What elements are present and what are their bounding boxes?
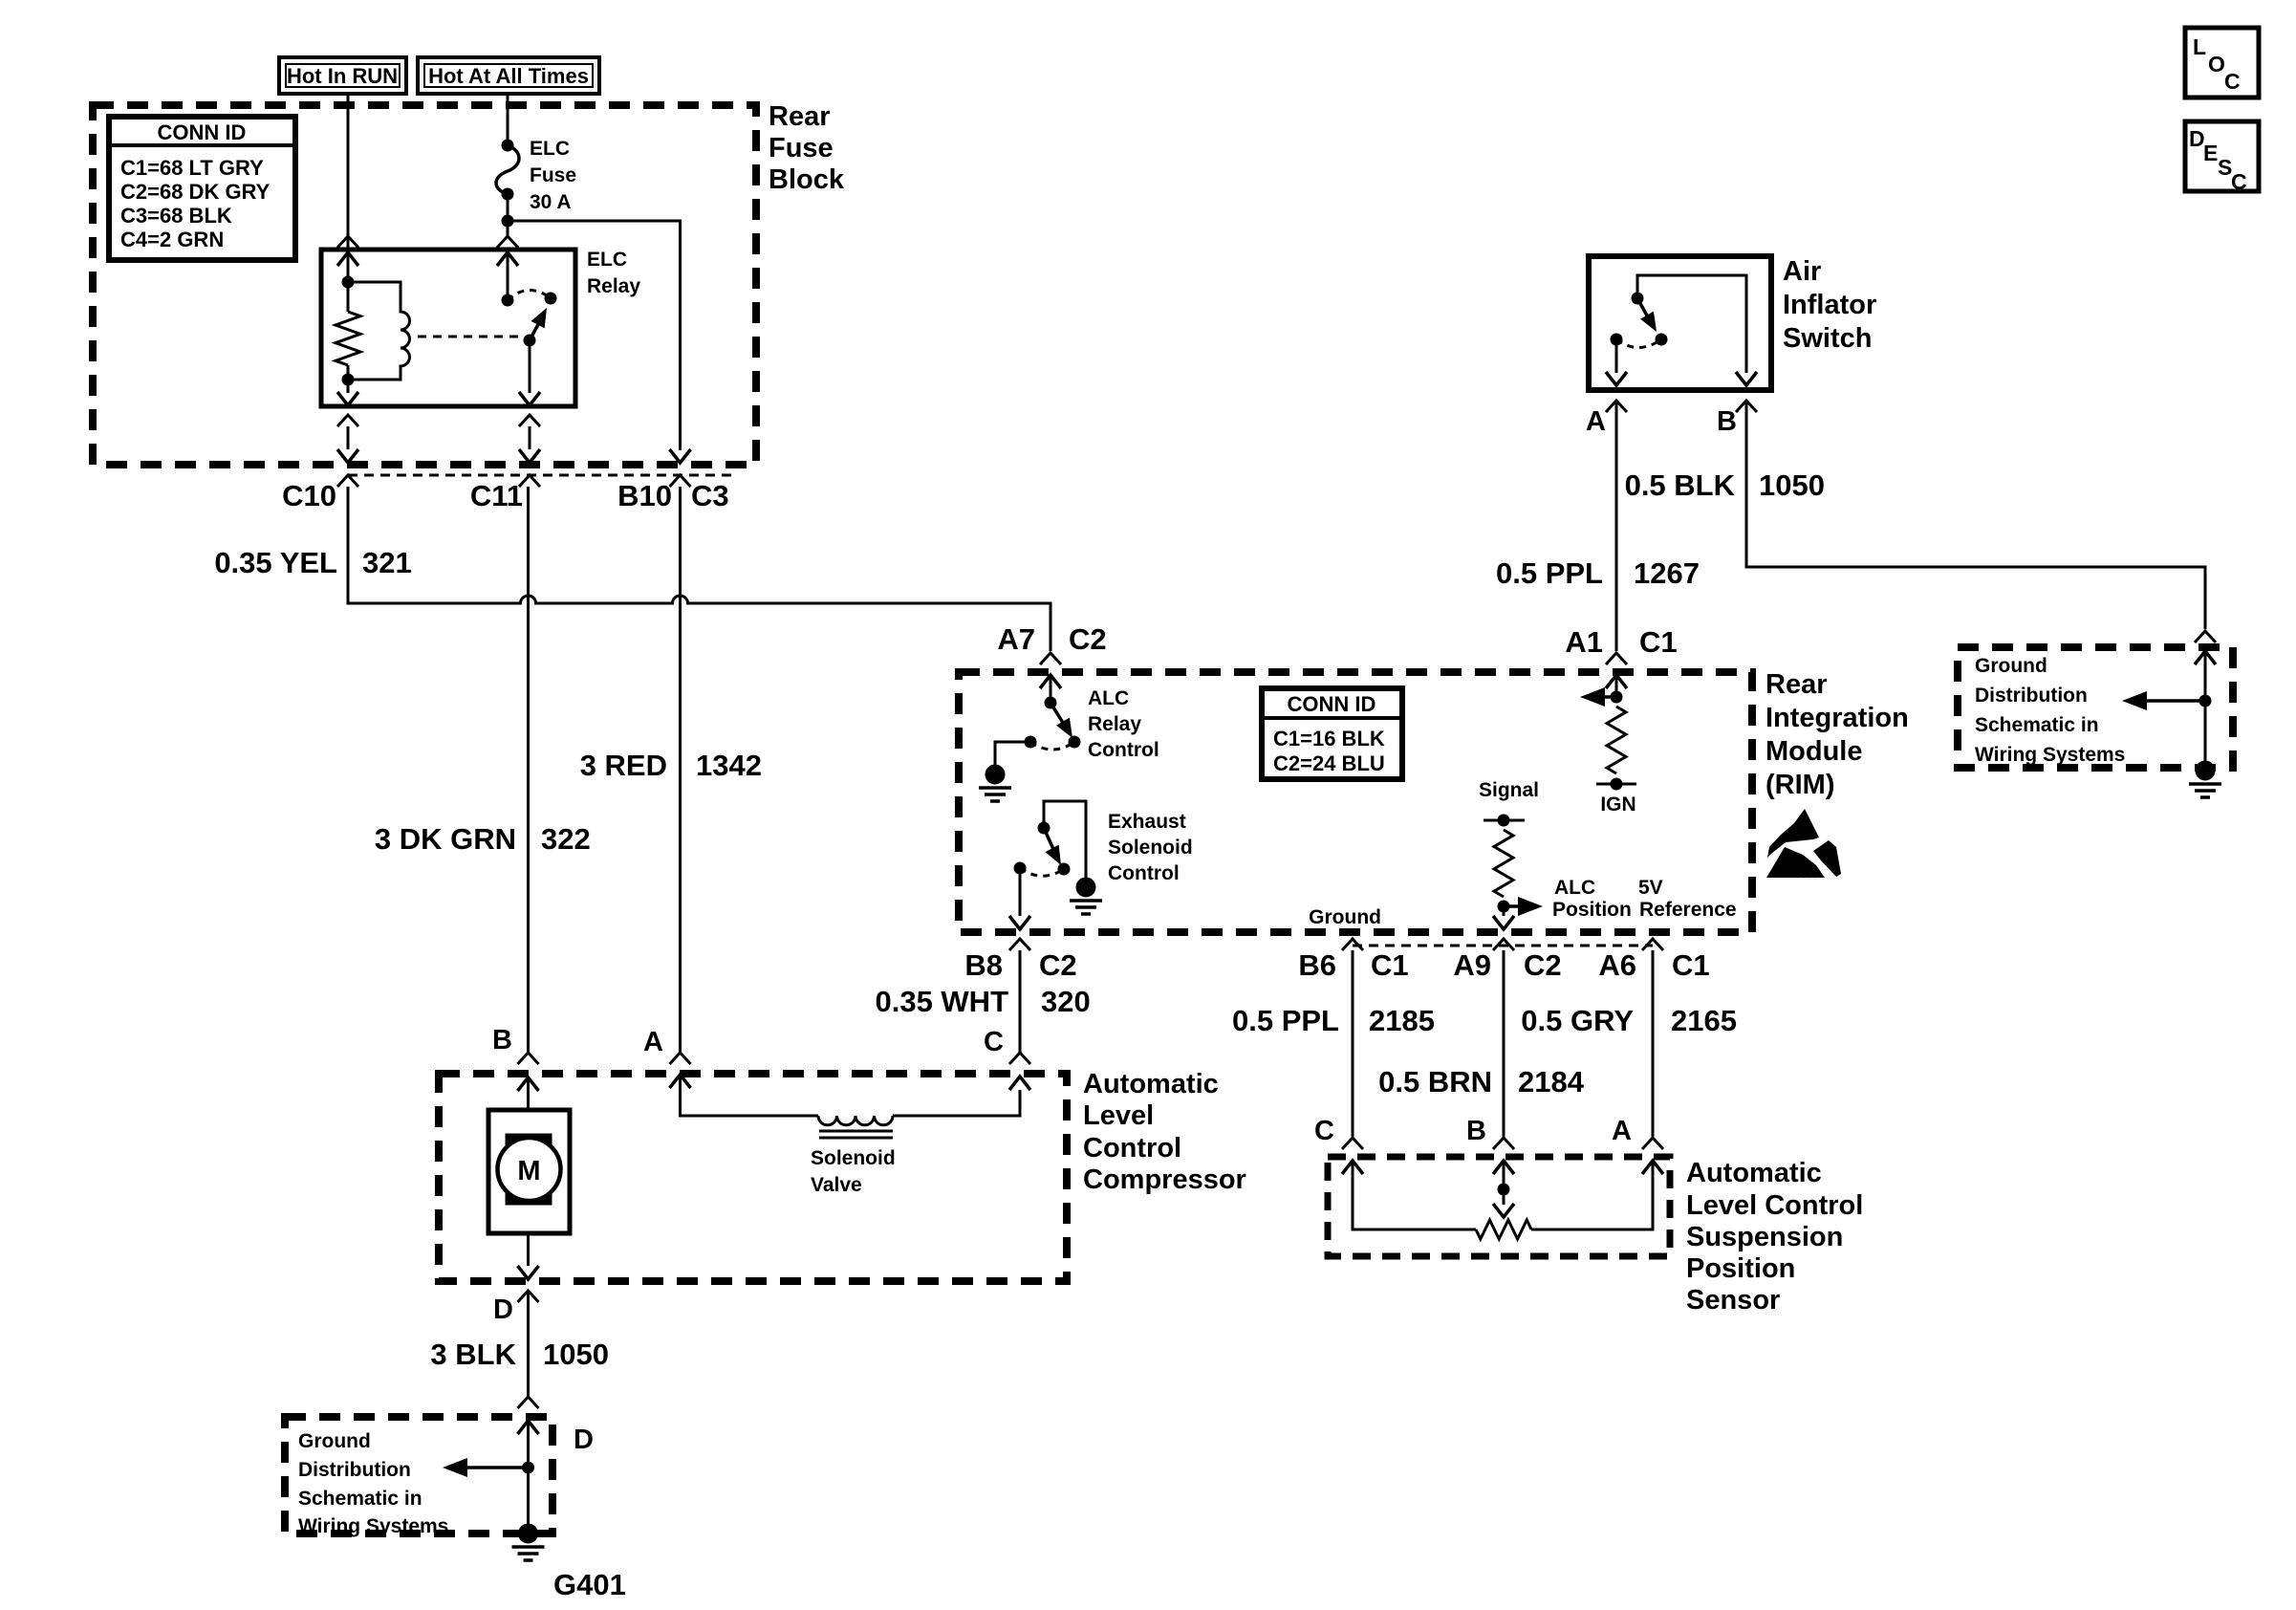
resistor ALC position signal <box>1484 815 1543 916</box>
svg-text:B: B <box>492 1025 512 1055</box>
ground (exhaust solenoid control) <box>1070 878 1102 914</box>
ground (ALC relay control) <box>979 765 1011 801</box>
label Ground Distribution Schematic in Wiring Systems (right) <box>1975 655 2125 766</box>
label Rear Fuse Block <box>769 101 845 195</box>
svg-text:C2=24 BLU: C2=24 BLU <box>1273 751 1385 775</box>
svg-text:C2: C2 <box>1069 622 1107 656</box>
svg-text:Inflator: Inflator <box>1783 290 1876 320</box>
relay coil-side entry arrow <box>337 252 358 266</box>
connector below relay left <box>337 415 358 426</box>
resistor IGN pull-up <box>1580 675 1636 790</box>
inductor Solenoid Valve coil <box>818 1116 893 1125</box>
svg-text:C3=68 BLK: C3=68 BLK <box>120 204 232 228</box>
label Ground Distribution Schematic in Wiring Systems (left) <box>298 1430 448 1537</box>
svg-text:0.5 BRN: 0.5 BRN <box>1378 1065 1492 1099</box>
connector compressor C <box>1009 1053 1030 1064</box>
label Air Inflator Switch <box>1783 256 1876 354</box>
connector B8/C2 <box>1009 939 1030 950</box>
svg-text:Position: Position <box>1552 899 1632 921</box>
svg-text:Ground: Ground <box>1975 655 2047 677</box>
svg-text:Valve: Valve <box>811 1174 862 1196</box>
switch ALC Relay Control <box>995 675 1080 765</box>
wire Hot At All Times down to fuse <box>507 94 509 145</box>
svg-text:0.5 PPL: 0.5 PPL <box>1232 1004 1339 1037</box>
svg-text:Reference: Reference <box>1639 899 1737 921</box>
svg-text:Rear: Rear <box>1765 669 1828 700</box>
svg-text:C11: C11 <box>470 479 523 512</box>
svg-text:C: C <box>2231 169 2247 194</box>
connector A1/C1 <box>1606 653 1627 664</box>
svg-text:320: 320 <box>1041 985 1091 1018</box>
wire to relay bottom (left) <box>347 380 350 393</box>
svg-text:1050: 1050 <box>1759 468 1825 502</box>
CONN ID table (RIM) <box>1262 688 1402 779</box>
svg-text:B: B <box>1717 406 1737 437</box>
connector to ground distribution <box>2195 631 2216 642</box>
svg-text:Schematic in: Schematic in <box>1975 714 2099 736</box>
svg-text:Relay: Relay <box>587 275 640 297</box>
node Hot At All Times feed box <box>418 57 599 94</box>
wire into right ground <box>2122 651 2216 765</box>
svg-text:Switch: Switch <box>1783 323 1872 354</box>
svg-text:G401: G401 <box>553 1568 626 1601</box>
arrow B8 out of RIM <box>1009 916 1030 929</box>
Ground Distribution box (left) <box>285 1417 552 1534</box>
svg-text:0.5 GRY: 0.5 GRY <box>1521 1004 1634 1037</box>
wire motor to D <box>527 1233 530 1266</box>
svg-text:B: B <box>1466 1116 1486 1146</box>
connector A9/C2 <box>1493 939 1514 950</box>
svg-text:Fuse: Fuse <box>530 164 576 186</box>
solenoid valve core bars <box>819 1131 893 1138</box>
svg-text:Automatic: Automatic <box>1686 1158 1822 1188</box>
svg-text:Exhaust: Exhaust <box>1108 811 1186 833</box>
switch Exhaust Solenoid Control <box>1014 801 1086 916</box>
wire Hot In RUN down to ELC relay <box>347 94 350 250</box>
svg-text:C10: C10 <box>282 479 336 512</box>
svg-text:Compressor: Compressor <box>1083 1164 1246 1195</box>
label ALC Relay Control <box>1088 687 1159 761</box>
svg-text:Relay: Relay <box>1088 713 1141 735</box>
svg-text:1342: 1342 <box>696 749 762 782</box>
motor M compressor motor <box>488 1110 570 1233</box>
svg-text:Ground: Ground <box>298 1430 371 1452</box>
svg-text:Ground: Ground <box>1309 906 1381 928</box>
svg-text:B10: B10 <box>617 479 672 512</box>
connector air inflator A <box>1606 401 1627 412</box>
svg-text:O: O <box>2208 52 2225 76</box>
svg-text:Distribution: Distribution <box>1975 685 2088 707</box>
svg-text:C1: C1 <box>1371 948 1409 982</box>
svg-text:0.35 WHT: 0.35 WHT <box>875 985 1008 1018</box>
relay actuation dashed link <box>418 336 523 338</box>
svg-text:D: D <box>493 1295 513 1325</box>
svg-text:Suspension: Suspension <box>1686 1222 1843 1252</box>
svg-text:C1: C1 <box>1672 948 1710 982</box>
wire relay C11 out <box>529 426 531 449</box>
svg-text:Hot At All Times: Hot At All Times <box>428 64 589 88</box>
connector compressor A <box>670 1053 691 1064</box>
junction fuse output <box>502 215 513 227</box>
wire 0.5 PPL 2185 : B6 to sensor C <box>1352 950 1354 1137</box>
wire 0.35 YEL 321 : C10 to RIM A7 <box>348 487 1051 651</box>
svg-text:C: C <box>984 1027 1004 1057</box>
svg-text:C2: C2 <box>1524 948 1562 982</box>
ALC Suspension Position Sensor box <box>1328 1157 1670 1256</box>
svg-text:ALC: ALC <box>1088 687 1129 709</box>
wire 0.5 GRY 2165 : A6 to sensor A <box>1652 950 1655 1137</box>
svg-text:30 A: 30 A <box>530 191 572 213</box>
svg-text:Air: Air <box>1783 256 1821 287</box>
svg-text:Control: Control <box>1088 739 1159 761</box>
svg-text:Wiring Systems: Wiring Systems <box>1975 744 2125 766</box>
wire relay left top <box>347 252 350 282</box>
Automatic Level Control Compressor box <box>439 1074 1067 1281</box>
svg-text:C2=68 DK GRY: C2=68 DK GRY <box>120 180 271 204</box>
svg-text:C1=16 BLK: C1=16 BLK <box>1273 727 1385 751</box>
svg-text:Schematic in: Schematic in <box>298 1488 422 1510</box>
svg-text:C4=2 GRN: C4=2 GRN <box>120 228 224 251</box>
arrow relay switch output <box>519 392 540 405</box>
connector A6/C1 <box>1642 939 1663 950</box>
svg-text:3 RED: 3 RED <box>580 749 667 782</box>
svg-text:C2: C2 <box>1039 948 1077 982</box>
svg-text:A: A <box>1586 406 1606 437</box>
Ground Distribution box (right) <box>1958 647 2233 768</box>
connector face line under RIM <box>1353 945 1653 947</box>
Rear Integration Module box <box>959 672 1752 932</box>
connector below relay right <box>519 415 540 426</box>
labels RIM bottom pins <box>1298 948 1709 982</box>
label Rear Integration Module (RIM) <box>1765 669 1909 800</box>
svg-text:Hot In RUN: Hot In RUN <box>287 64 398 88</box>
label ELC Relay <box>587 249 640 297</box>
wire relay C10 out <box>347 426 350 449</box>
svg-text:Position: Position <box>1686 1253 1795 1284</box>
inductor relay coil (right branch) <box>348 282 410 380</box>
wire 0.5 BLK 1050 : inflator B to ground <box>1746 401 2205 629</box>
connector compressor D <box>518 1291 539 1302</box>
labels sensor harness wires <box>1232 1004 1737 1099</box>
svg-text:C1=68 LT GRY: C1=68 LT GRY <box>120 156 264 180</box>
svg-text:Level Control: Level Control <box>1686 1190 1863 1221</box>
fuse ELC Fuse 30 A <box>496 138 576 213</box>
ground G401 <box>512 1524 545 1560</box>
svg-text:Control: Control <box>1108 862 1180 884</box>
wire junction to B10/C3 feed <box>508 221 681 450</box>
svg-text:L: L <box>2193 34 2206 59</box>
svg-text:Distribution: Distribution <box>298 1459 411 1481</box>
connector sensor A <box>1642 1138 1663 1149</box>
svg-text:B6: B6 <box>1298 948 1336 982</box>
CONN ID table (fuse block) <box>109 117 295 260</box>
connector into ELC relay (right) <box>497 236 518 248</box>
connector air inflator B <box>1736 401 1757 412</box>
svg-text:Fuse: Fuse <box>769 133 834 163</box>
connector sensor C <box>1342 1138 1363 1149</box>
svg-text:C1: C1 <box>1639 625 1678 659</box>
arrow into compressor B <box>518 1077 539 1091</box>
svg-text:Wiring Systems: Wiring Systems <box>298 1515 448 1537</box>
svg-text:321: 321 <box>362 546 412 579</box>
connector compressor B <box>518 1053 539 1064</box>
svg-text:D: D <box>574 1425 594 1455</box>
arrow A9 out of RIM <box>1493 916 1514 929</box>
svg-text:ALC: ALC <box>1554 877 1595 899</box>
wire fuse to junction <box>507 194 509 236</box>
potentiometer position sensor element <box>1342 1161 1663 1239</box>
svg-text:Module: Module <box>1765 736 1863 767</box>
resistor relay internal (left branch) <box>347 282 350 312</box>
svg-text:Block: Block <box>769 164 845 195</box>
svg-text:1050: 1050 <box>543 1338 609 1371</box>
svg-text:A7: A7 <box>997 622 1035 656</box>
arrow at fuse block edge (C11) <box>519 449 540 463</box>
svg-text:A: A <box>1612 1116 1632 1146</box>
svg-text:Signal: Signal <box>1479 779 1539 801</box>
Air Inflator Switch box <box>1589 256 1771 390</box>
svg-text:Solenoid: Solenoid <box>1108 837 1193 859</box>
wire 0.35 WHT 320 : B8 to compressor C <box>1019 950 1022 1053</box>
svg-text:ELC: ELC <box>530 138 570 160</box>
svg-text:2185: 2185 <box>1369 1004 1435 1037</box>
svg-text:0.35 YEL: 0.35 YEL <box>214 546 337 579</box>
svg-text:A6: A6 <box>1598 948 1636 982</box>
Rear Fuse Block (dashed outline) <box>93 105 756 465</box>
svg-text:(RIM): (RIM) <box>1765 770 1834 800</box>
svg-text:E: E <box>2203 141 2218 165</box>
svg-text:Rear: Rear <box>769 101 831 132</box>
svg-text:IGN: IGN <box>1600 794 1635 816</box>
node Hot In RUN feed box <box>279 57 406 94</box>
wire 3 DK GRN 322 : C11 to compressor B <box>527 487 530 1053</box>
svg-text:5V: 5V <box>1638 877 1663 899</box>
svg-text:CONN ID: CONN ID <box>158 120 247 144</box>
svg-text:3 DK GRN: 3 DK GRN <box>375 822 516 856</box>
svg-text:2184: 2184 <box>1518 1065 1585 1099</box>
relay switch <box>497 252 556 393</box>
wire A to solenoid valve <box>681 1075 819 1116</box>
junction relay coil top <box>342 276 354 288</box>
connector into ELC relay (left) <box>337 236 358 248</box>
ground G (right) <box>2189 761 2221 797</box>
svg-text:1267: 1267 <box>1634 556 1700 590</box>
wire 0.5 PPL 1267 : inflator A to RIM A1 <box>1615 401 1618 651</box>
label Solenoid Valve <box>811 1147 896 1196</box>
junction relay coil bottom <box>342 374 354 385</box>
connector A7/C2 <box>1040 653 1061 664</box>
connector into ground distribution (left) <box>518 1397 539 1408</box>
node DESC reference box <box>2185 121 2259 194</box>
connector B6/C1 <box>1342 939 1363 950</box>
svg-text:A9: A9 <box>1453 948 1491 982</box>
arrow compressor D out <box>518 1266 539 1279</box>
wire 0.5 BRN 2184 : A9 to sensor B <box>1503 950 1505 1137</box>
wire solenoid valve to C <box>893 1090 1020 1116</box>
svg-text:2165: 2165 <box>1671 1004 1737 1037</box>
switch air inflator internal <box>1606 275 1757 385</box>
connector B10/C3 <box>670 475 691 487</box>
svg-text:C: C <box>1314 1116 1334 1146</box>
svg-text:3 BLK: 3 BLK <box>430 1338 516 1371</box>
svg-text:0.5 PPL: 0.5 PPL <box>1496 556 1603 590</box>
arrow into compressor A <box>670 1075 691 1088</box>
svg-text:M: M <box>517 1156 540 1186</box>
arrow at fuse block edge (C10) <box>337 449 358 463</box>
svg-text:ELC: ELC <box>587 249 627 271</box>
svg-text:CONN ID: CONN ID <box>1288 692 1376 716</box>
svg-text:Control: Control <box>1083 1133 1181 1164</box>
connector face line under fuse block <box>348 474 736 477</box>
node LOC reference box <box>2185 28 2259 98</box>
label Automatic Level Control Suspension Position Sensor <box>1686 1158 1863 1316</box>
svg-text:Solenoid: Solenoid <box>811 1147 896 1169</box>
svg-text:0.5 BLK: 0.5 BLK <box>1625 468 1736 502</box>
connector C11 <box>519 475 540 487</box>
svg-text:Integration: Integration <box>1765 703 1909 733</box>
arrow into B10 connector <box>670 449 691 463</box>
svg-text:Level: Level <box>1083 1100 1154 1131</box>
ESD susceptibility symbol <box>1766 809 1841 878</box>
svg-text:A1: A1 <box>1565 625 1603 659</box>
wire 3 BLK 1050 : compressor D to G401 <box>527 1291 530 1396</box>
ELC Relay box <box>321 250 575 406</box>
svg-text:B8: B8 <box>964 948 1003 982</box>
svg-text:Automatic: Automatic <box>1083 1069 1219 1099</box>
svg-text:Sensor: Sensor <box>1686 1285 1780 1316</box>
svg-text:322: 322 <box>541 822 591 856</box>
wire 3 RED 1342 : C3 to compressor A <box>679 487 682 1053</box>
svg-text:A: A <box>643 1027 663 1057</box>
connector sensor B <box>1493 1138 1514 1149</box>
svg-text:C: C <box>2224 69 2241 94</box>
wire B to motor <box>527 1077 530 1110</box>
connector C10 <box>337 475 358 487</box>
svg-text:C3: C3 <box>691 479 729 512</box>
label Automatic Level Control Compressor <box>1083 1069 1246 1195</box>
wire into left ground <box>443 1421 539 1528</box>
label Exhaust Solenoid Control <box>1108 811 1193 884</box>
